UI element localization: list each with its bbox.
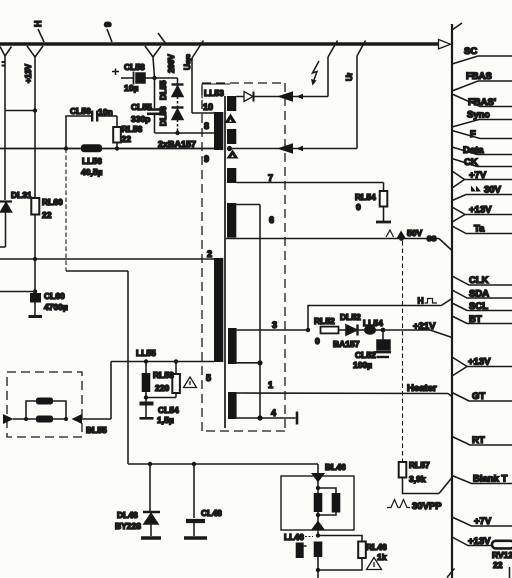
inductor BL55 upper winding — [26, 398, 66, 420]
diode DL56 (zener, vertical) — [159, 106, 184, 133]
inductor LL55 — [136, 348, 156, 398]
svg-text:SC: SC — [464, 46, 477, 57]
inductor LL54 — [363, 318, 383, 335]
junction RL56 branch right — [115, 146, 119, 150]
net Data — [452, 145, 512, 156]
pin 8 wire — [155, 132, 215, 134]
svg-text:10: 10 — [203, 102, 213, 112]
resistor RL54 0 — [355, 183, 387, 222]
warning triangle (RL46) — [367, 558, 382, 570]
wire vertical return (x=260) — [259, 205, 261, 419]
arrowhead line 1 — [277, 91, 293, 102]
wire CL56 branch — [66, 116, 117, 149]
svg-text:+13V: +13V — [24, 63, 33, 83]
svg-text:LL55: LL55 — [136, 348, 156, 358]
svg-text:100µ: 100µ — [353, 360, 372, 370]
svg-text:Data: Data — [463, 145, 484, 156]
ground (RL54) — [376, 221, 391, 224]
wire down to CL60 — [34, 259, 36, 292]
svg-text:Heater: Heater — [407, 383, 437, 394]
wire: arrow line 2 (W2/W3 junction to Uf tap) — [230, 148, 358, 150]
wire W4 top loop — [236, 204, 260, 206]
svg-text:CL60: CL60 — [44, 291, 65, 301]
wire: pin 7 line — [236, 182, 383, 184]
junction BL46 top — [316, 486, 320, 490]
net +13V (feed 2) — [452, 357, 512, 377]
svg-text:RL58: RL58 — [153, 370, 174, 380]
svg-text:Blank T: Blank T — [473, 474, 508, 485]
junction below BL46 — [316, 533, 320, 537]
net CLK — [452, 275, 512, 286]
svg-text:LL53: LL53 — [204, 88, 224, 98]
wire BL55 line with arrowheads — [3, 362, 111, 425]
capacitor CL60 4700u (electrolytic) — [30, 291, 68, 315]
svg-text:330p: 330p — [131, 114, 150, 124]
svg-text:CLK: CLK — [469, 275, 489, 286]
wire: main supply bus (thick, top) — [0, 42, 438, 46]
svg-text:RL57: RL57 — [409, 460, 430, 470]
junction on pin2 line — [33, 257, 37, 261]
label H with pulse waveform — [418, 296, 438, 306]
flash symbol (lightning bolt) — [311, 61, 319, 86]
wire: arrow line 1 (W1 top to flash tap) — [236, 96, 328, 98]
svg-text:Ta: Ta — [474, 224, 485, 235]
capacitor CL52 100u (electrolytic) — [353, 330, 391, 370]
svg-text:3: 3 — [272, 320, 277, 330]
capacitor CL55 330p — [131, 102, 163, 133]
svg-text:+7V: +7V — [474, 516, 492, 527]
svg-text:CK: CK — [464, 157, 478, 168]
svg-text:9: 9 — [204, 154, 209, 164]
svg-text:0: 0 — [356, 202, 361, 212]
net +13V tap from bus — [24, 46, 43, 110]
svg-text:CL54: CL54 — [158, 405, 179, 415]
winding LL53 secondary W5 (pin 3) — [228, 328, 237, 364]
resistor RL46 1k — [318, 536, 387, 571]
svg-text:BL46: BL46 — [325, 462, 346, 472]
svg-text:LL46: LL46 — [284, 532, 304, 542]
junction on +13V rail — [33, 108, 37, 112]
wire BL46 main through — [317, 479, 319, 536]
svg-text:22: 22 — [493, 560, 503, 570]
capacitor CL56 10n — [70, 106, 113, 122]
svg-text:+13V: +13V — [468, 536, 491, 547]
net SC — [452, 46, 512, 64]
svg-text:SCL: SCL — [469, 301, 488, 312]
diagonal into bus (50V) — [439, 239, 452, 251]
svg-text:H: H — [418, 296, 424, 306]
transformer core — [224, 96, 226, 428]
wire down to BL46 — [317, 464, 319, 474]
arrowhead line 2 — [277, 143, 293, 154]
ground (pin 4, sideways) — [296, 412, 299, 425]
wire: pin 2 line (from left edge) — [0, 258, 214, 260]
net F — [452, 129, 512, 140]
junction RL46 bottom — [316, 568, 320, 572]
svg-text:3,9k: 3,9k — [409, 474, 426, 484]
transformer LL53 dashed enclosure — [202, 83, 285, 431]
inductor LL46 — [284, 532, 313, 558]
net Ta — [452, 224, 512, 235]
label LL53 (with frame) — [202, 84, 230, 99]
pin 10 wire — [192, 112, 214, 114]
wire: right distribution bus (vertical) — [451, 24, 453, 578]
diode DL48 BY228 — [115, 464, 160, 536]
svg-text:RL54: RL54 — [355, 192, 376, 202]
svg-text:30VPP: 30VPP — [412, 501, 442, 512]
junction BL55 left — [24, 417, 28, 421]
net CK — [452, 157, 512, 168]
diode DL53 on arrow line 1 — [244, 92, 254, 102]
resistor RL58 220 — [146, 362, 180, 398]
arrow out of BL46 — [311, 521, 325, 531]
wire: main line to pin 9 (from left edge) — [0, 148, 214, 150]
bus end arrow into vertical bus — [439, 40, 451, 49]
wire to left edge — [5, 110, 35, 112]
node H (bus tap label, rotated) — [33, 21, 44, 43]
resistor RL57 3,9k — [399, 460, 439, 494]
winding LL53 secondary W6 (pins 1-4, heater) — [228, 392, 237, 419]
net +13V (feed 4) — [452, 536, 512, 547]
svg-text:Sync: Sync — [467, 110, 490, 121]
resistor RV12 22 — [447, 541, 512, 578]
wire 200V node to diode chain / pin 8 — [155, 77, 178, 79]
capacitor CL58 10u — [112, 62, 155, 93]
wire: pin 1 line (Heater) — [237, 392, 448, 395]
svg-text:RT: RT — [472, 435, 485, 446]
wire: pin 5 line — [111, 361, 214, 363]
svg-text:CL58: CL58 — [124, 62, 145, 72]
svg-text:40,5µ: 40,5µ — [81, 167, 103, 177]
svg-text:5: 5 — [206, 373, 211, 383]
wire CL60 node to left edge — [0, 291, 35, 293]
node 9 (bus tap label, rotated) — [103, 22, 113, 42]
resistor RL52 0 — [314, 316, 346, 346]
svg-text:4700µ: 4700µ — [44, 302, 68, 312]
net Blank T — [452, 474, 512, 485]
svg-text:220: 220 — [155, 383, 169, 393]
wire: dashed measurement line to RL57 — [402, 241, 404, 462]
balun BL46 enclosure — [281, 476, 354, 530]
junction RL58 top — [174, 359, 178, 363]
junction 200V node — [152, 76, 156, 80]
diode DL31 — [0, 190, 32, 247]
svg-text:DL55: DL55 — [159, 80, 168, 100]
svg-text:7: 7 — [268, 173, 273, 183]
svg-text:22: 22 — [122, 134, 132, 144]
bus top tick — [452, 23, 462, 30]
svg-text:SS: SS — [427, 236, 437, 243]
svg-text:+7V: +7V — [469, 170, 487, 181]
svg-text:0: 0 — [315, 336, 320, 346]
wire: pin 6 / 50V line — [226, 238, 439, 240]
svg-text:50V: 50V — [407, 228, 422, 238]
svg-text:RL46: RL46 — [366, 542, 387, 552]
winding LL53 primary A (pins 10-8-9) — [214, 112, 223, 150]
svg-text:DL31: DL31 — [11, 190, 32, 200]
winding LL53 secondary W3 (pin 7) — [227, 168, 236, 183]
svg-text:BY228: BY228 — [115, 521, 141, 531]
svg-text:RV12: RV12 — [492, 550, 512, 560]
waveform mark 30VPP — [387, 500, 442, 513]
winding LL53 secondary W1 — [227, 96, 236, 111]
inductor on main line (LL46 series) — [314, 542, 323, 558]
inductor BL46 winding 1 — [314, 493, 323, 512]
wire W5 bottom — [237, 362, 260, 364]
diagonal into bus (H) — [441, 299, 452, 306]
svg-text:FBAS': FBAS' — [468, 97, 496, 108]
svg-text:BT: BT — [469, 314, 482, 325]
junction CL56 branch left — [64, 146, 68, 150]
svg-text:22: 22 — [42, 210, 52, 220]
svg-text:BA157: BA157 — [333, 339, 360, 349]
svg-text:2: 2 — [207, 249, 212, 259]
wire: H branch up and right — [308, 306, 441, 331]
wire main line to bottom edge — [317, 557, 319, 578]
net SDA — [452, 289, 512, 300]
flashover tap from bus — [328, 41, 338, 97]
svg-text:DL48: DL48 — [117, 510, 138, 520]
resistor RL60 22 — [31, 197, 63, 259]
junction CL48 — [192, 462, 196, 466]
net +7V (feed) — [452, 170, 512, 188]
junction W5 bottom / return — [257, 360, 262, 365]
net SCL — [452, 301, 512, 312]
net 30Vss (waveform) — [452, 185, 512, 201]
wire: pin 3 line (+21V) — [237, 329, 308, 331]
svg-text:1,5µ: 1,5µ — [157, 415, 174, 425]
junction BL55 right — [64, 417, 68, 421]
junction LL55 top — [144, 359, 148, 363]
junction pin8 wire — [175, 131, 179, 135]
resistor RL56 22 — [113, 116, 142, 149]
ground (CL48) — [184, 536, 207, 539]
svg-text:9: 9 — [103, 22, 113, 27]
net 200V tap from bus — [145, 46, 176, 78]
net +13V (feed) — [452, 205, 512, 223]
wire 200V rail down — [154, 78, 156, 108]
junction CL60 node — [33, 289, 37, 293]
warning triangle (hot) at pin 5 — [184, 377, 197, 388]
inductor LL56 40,5u — [81, 144, 103, 177]
svg-text:DL56: DL56 — [159, 106, 168, 126]
junction BL46 bottom — [316, 513, 320, 517]
net Uf tap from bus — [345, 41, 366, 149]
balun BL55 dashed enclosure — [7, 372, 82, 437]
winding LL53 secondary W2 — [227, 129, 236, 144]
svg-text:RL56: RL56 — [122, 124, 143, 134]
net Usys tap from bus — [183, 41, 204, 114]
wire +21V to bus — [383, 330, 452, 338]
junction pin4 / return — [257, 415, 262, 420]
winding LL53 primary B (pins 2-5) — [214, 258, 223, 362]
warning triangle (hot) upper — [225, 114, 237, 124]
inductor BL46 winding 2 — [318, 488, 340, 515]
svg-text:8: 8 — [204, 121, 209, 131]
net +7V (feed 3) — [452, 516, 512, 527]
svg-text:CL48: CL48 — [201, 508, 222, 518]
svg-text:6: 6 — [269, 215, 274, 225]
svg-text:LL56: LL56 — [82, 156, 102, 166]
junction +21V / H branch — [306, 328, 310, 332]
diagonal into bus (Heater) — [448, 394, 452, 397]
winding LL53 secondary W4 (pin 6) — [227, 203, 236, 238]
net FBAS' — [452, 94, 512, 108]
warning triangle (hot) lower — [227, 150, 239, 159]
arrow into BL46 — [311, 473, 325, 483]
diode DL52 BA157 — [333, 312, 364, 349]
svg-text:H: H — [33, 21, 43, 28]
svg-text:200V: 200V — [167, 54, 176, 73]
svg-text:CL52: CL52 — [355, 350, 376, 360]
svg-text:RL60: RL60 — [42, 197, 63, 207]
ground (CL60) — [29, 315, 43, 318]
wire W6 bottom (pin 4) — [237, 417, 296, 419]
net RT — [452, 435, 512, 446]
svg-text:+21V: +21V — [413, 321, 436, 332]
svg-text:GT: GT — [472, 391, 485, 402]
net FBAS — [452, 71, 512, 91]
svg-text:DL52: DL52 — [340, 312, 361, 322]
svg-text:F: F — [470, 129, 476, 140]
capacitor CL48 — [186, 464, 222, 536]
svg-text:2xBA157: 2xBA157 — [158, 139, 196, 149]
svg-text:+13V: +13V — [468, 357, 491, 368]
svg-text:+13V: +13V — [469, 205, 492, 216]
net GT — [452, 391, 512, 402]
ground (DL48) — [141, 536, 161, 539]
svg-text:FBAS: FBAS — [466, 71, 492, 82]
junction DL48 — [148, 462, 152, 466]
diagonal into bus (RL57 / Blank T node) — [439, 478, 452, 494]
net Sync — [452, 110, 512, 128]
svg-text:10n: 10n — [98, 107, 113, 117]
net BT — [452, 314, 512, 325]
wire: left tap V1 from bus — [0, 47, 12, 201]
junction CL54 top — [144, 395, 148, 399]
svg-text:4: 4 — [271, 408, 276, 418]
inductor BL55 lower winding — [36, 416, 53, 423]
wire +13V rail down — [34, 111, 36, 199]
wire: dashed branch from main line down — [66, 149, 128, 465]
svg-text:CL56: CL56 — [70, 106, 91, 116]
junction CL52 node — [381, 328, 386, 333]
junction W2/W3 (arrow line 2 take-off) — [227, 146, 232, 151]
capacitor CL54 1,5u — [140, 398, 180, 426]
svg-text:30V: 30V — [484, 185, 502, 196]
bus slash mark — [158, 33, 166, 44]
svg-text:1: 1 — [268, 380, 273, 390]
svg-text:10µ: 10µ — [124, 83, 138, 93]
svg-text:RL52: RL52 — [314, 316, 335, 326]
svg-text:1k: 1k — [377, 552, 387, 562]
svg-text:SDA: SDA — [469, 289, 489, 300]
diode DL55 (zener, vertical) — [159, 78, 184, 107]
wire: lower distribution line — [128, 463, 318, 465]
waveform mark 50Vss — [386, 228, 437, 243]
svg-text:BL55: BL55 — [86, 425, 107, 435]
